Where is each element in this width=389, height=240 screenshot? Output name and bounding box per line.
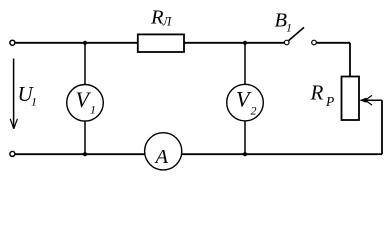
wire wiper down xyxy=(381,100,383,154)
wire V1 upper lead xyxy=(84,43,86,85)
wire bottom-right xyxy=(182,153,382,155)
svg-text:1: 1 xyxy=(286,21,292,35)
svg-text:Л: Л xyxy=(162,15,173,29)
wire V1 lower lead xyxy=(84,121,86,154)
terminal top-left xyxy=(10,40,15,45)
junction bottom V2 xyxy=(243,152,247,156)
wire down to rheostat xyxy=(349,43,351,77)
wire top-left xyxy=(15,42,137,44)
switch B1 left contact xyxy=(284,40,289,45)
junction bottom V1 xyxy=(83,152,87,156)
svg-text:2: 2 xyxy=(251,104,257,118)
wire V2 upper lead xyxy=(244,43,246,85)
arrow U1 xyxy=(10,59,17,129)
wire top-middle xyxy=(184,42,284,44)
svg-text:A: A xyxy=(154,146,169,168)
svg-text:1: 1 xyxy=(90,103,96,117)
voltmeter V2 xyxy=(227,84,264,121)
svg-text:1: 1 xyxy=(31,95,37,109)
resistor RЛ xyxy=(138,34,184,52)
wire bottom-left xyxy=(15,153,145,155)
wire V2 lower lead xyxy=(244,121,246,154)
rheostat RP body xyxy=(342,77,360,121)
switch B1 right contact xyxy=(312,40,317,45)
terminal bottom-left xyxy=(10,151,15,156)
junction top V1 xyxy=(83,41,87,45)
svg-text:R: R xyxy=(310,80,324,104)
voltmeter V1 xyxy=(67,85,104,122)
wire switch to corner xyxy=(317,42,351,44)
svg-text:P: P xyxy=(325,94,334,109)
ammeter A xyxy=(145,133,182,170)
junction top V2 xyxy=(243,41,247,45)
switch B1 blade xyxy=(289,27,304,40)
rheostat wiper arrow xyxy=(359,95,382,105)
